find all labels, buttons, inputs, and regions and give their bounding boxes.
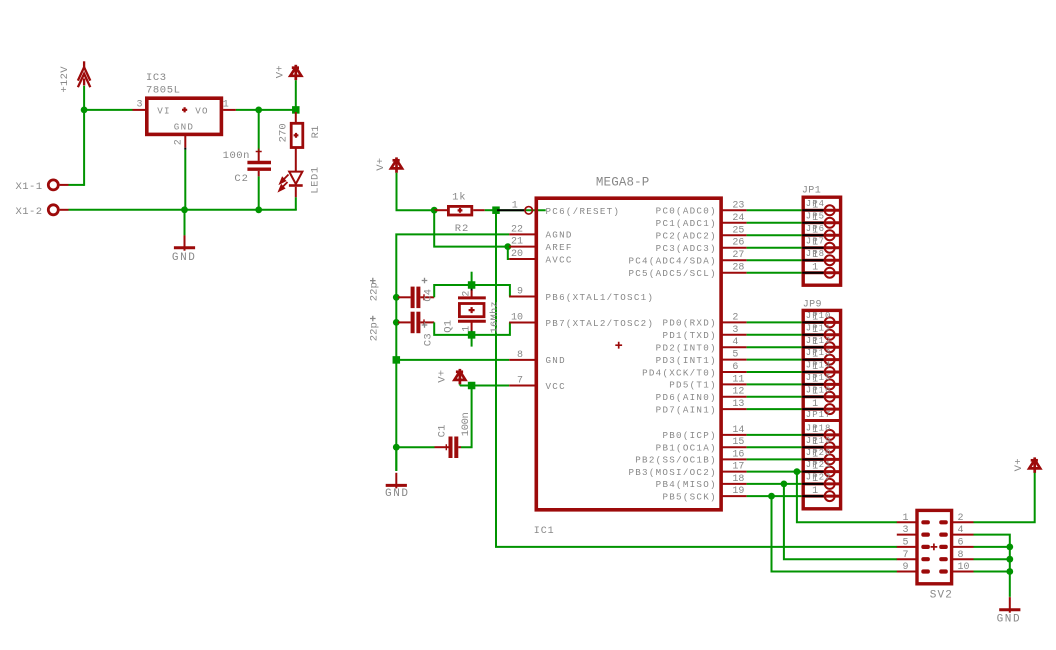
cross of C4 label [422,278,428,284]
svg-text:JP20: JP20 [806,448,832,458]
wire AREF to AVCC pin [508,247,509,259]
svg-text:PD3(INT1): PD3(INT1) [656,355,717,366]
wire pin 5 to header [747,359,824,361]
svg-text:270: 270 [277,123,289,142]
JP1 row at pin line y=260.2 [803,259,839,262]
svg-text:1: 1 [512,200,518,211]
wire C3 to crystal bottom node [434,322,471,335]
wire stub below crystal bottom node [471,339,473,347]
microcontroller IC1 MEGA8-P body [536,198,721,510]
cross of 22p C3 label [370,316,376,322]
JP9 row at pin line y=347.2 [803,346,839,349]
svg-text:10: 10 [511,313,523,324]
svg-text:PD0(RXD): PD0(RXD) [662,318,716,329]
JP1 row at pin line y=247.7 [803,246,839,249]
svg-text:1: 1 [461,326,472,332]
svg-text:7: 7 [517,376,523,387]
junction dot pin10 [1006,568,1013,575]
MCU pin 18 PB4(MISO) [721,483,747,485]
svg-text:X1-2: X1-2 [16,206,43,218]
svg-text:2: 2 [958,513,964,524]
wire pin 18 to header [747,483,824,485]
svg-text:JP18: JP18 [806,424,832,434]
wire AREF branch [434,210,508,246]
svg-text:PD1(TXD): PD1(TXD) [662,330,716,341]
svg-text:22p: 22p [368,282,380,301]
SV2 pins 7/8 [897,558,917,560]
wire C1 left to GND net [396,446,434,448]
svg-text:27: 27 [732,250,744,261]
svg-text:PB3(MOSI/OC2): PB3(MOSI/OC2) [628,467,716,478]
capacitor C3 [398,321,411,323]
MCU pin 21 AREF [509,246,536,248]
wire pin 2 to header [747,321,824,323]
svg-text:10: 10 [958,562,970,573]
power symbol +12V [78,61,90,87]
svg-text:1: 1 [812,425,818,436]
MCU pin 23 PC0(ADC0) [721,209,747,211]
junction dot C4 left [393,294,400,301]
svg-text:PC5(ADC5/SCL): PC5(ADC5/SCL) [628,268,716,279]
JP9 row at pin line y=434.9 [803,433,839,436]
wire pin 28 to header [747,272,824,274]
wire R2 to reset node [485,209,496,211]
JP9 row at pin line y=322.4 [803,321,839,324]
svg-text:PD2(INT0): PD2(INT0) [656,343,717,354]
svg-text:1: 1 [812,238,818,249]
svg-text:V+: V+ [274,65,286,78]
MCU pin 2 PD0(RXD) [721,321,747,323]
svg-text:PB6(XTAL1/TOSC1): PB6(XTAL1/TOSC1) [546,292,655,303]
MCU pin 8 GND [509,359,536,361]
MCU pin 20 AVCC [509,258,536,260]
wire R1 to LED1 [295,148,297,172]
wire AGND net [396,234,509,360]
svg-text:V+: V+ [437,370,449,383]
svg-text:+12V: +12V [59,66,71,93]
svg-text:21: 21 [511,237,523,248]
wire SV2 pin6 [974,546,1010,548]
wire 7805 GND down to ground rail [184,150,186,210]
connector SV2 outline [917,510,952,583]
JP9 row at pin line y=359.6 [803,358,839,361]
IC3 origin cross [182,107,187,112]
svg-text:1: 1 [812,263,818,274]
wire crystal bottom node to PB7 pin [472,323,510,335]
svg-text:PB5(SCK): PB5(SCK) [662,491,716,502]
svg-text:PB4(MISO): PB4(MISO) [656,479,717,490]
wire VCC branch down to C1 right [461,386,472,448]
svg-text:IC1: IC1 [534,526,555,537]
svg-text:17: 17 [732,462,744,473]
junction dot MOSI branch [794,468,801,475]
MCU pin 4 PD2(INT0) [721,346,747,348]
JP9 row at pin line y=409.1 [803,408,839,411]
capacitor C4 [398,296,411,298]
capacitor C2 plates [247,161,271,164]
svg-text:PB0(ICP): PB0(ICP) [662,430,716,441]
svg-text:JP11: JP11 [806,323,832,333]
R2 pin stubs [434,209,447,211]
junction square GND pin wire [393,356,401,364]
wire pin 19 to header [747,495,824,497]
svg-text:1: 1 [812,462,818,473]
svg-text:IC3: IC3 [146,72,167,84]
svg-text:GND: GND [172,252,197,264]
JP9 row at pin line y=496.1 [803,495,839,498]
junction dot pin8 [1006,556,1013,563]
svg-text:Q1: Q1 [443,320,455,333]
IC3 pin 3 stub [133,109,146,111]
svg-text:JP13: JP13 [806,348,832,358]
wire crystal top node to PB6 pin [472,285,510,297]
svg-text:3: 3 [902,525,908,536]
wire junction to 7805 VI [84,109,132,111]
capacitor C2 wire bottom [258,171,260,177]
svg-text:PD5(T1): PD5(T1) [669,380,717,391]
svg-text:22: 22 [511,224,523,235]
resistor R1 origin cross [294,133,299,138]
svg-text:12: 12 [732,387,744,398]
svg-text:JP16: JP16 [806,385,832,395]
svg-text:15: 15 [732,437,744,448]
resistor R2 origin cross [458,208,463,213]
junction dot C1 left [393,444,400,451]
svg-text:JP1: JP1 [802,186,821,197]
svg-text:7805L: 7805L [146,84,181,96]
junction dot MISO branch [781,481,788,488]
capacitor C2 origin cross [256,149,262,155]
svg-text:PC2(ADC2): PC2(ADC2) [656,231,717,242]
LED1 diode [289,172,303,198]
power symbol V+ middle [391,157,402,172]
junction dot at +12V / VI wire [81,107,88,114]
svg-text:1: 1 [812,213,818,224]
svg-text:3: 3 [136,99,142,110]
wire +12V stub down to X1-1 riser [83,86,85,186]
wire GND net to pin 8 [396,359,509,361]
svg-text:MEGA8-P: MEGA8-P [596,176,650,190]
wire SV2 pin8 [974,558,1010,560]
svg-text:PD7(AIN1): PD7(AIN1) [656,404,717,415]
wire MISO to SV2 pin7 [784,484,897,559]
MCU pin 1 inversion circle [525,207,533,215]
junction dot ground rail / C2 [255,206,262,213]
wire pin 12 to header [747,396,824,398]
wire pin 14 to header [747,434,824,436]
capacitor C3 origin cross [421,319,427,325]
svg-text:PC4(ADC4/SDA): PC4(ADC4/SDA) [628,256,716,267]
svg-text:JP17: JP17 [806,410,832,420]
svg-text:1: 1 [812,337,818,348]
junction square crystal bottom node [468,331,476,339]
MCU pin 15 PB1(OC1A) [721,446,747,448]
junction dot R2 left / AREF branch [431,207,438,214]
MCU pin 10 PB7(XTAL2/TOSC2) [509,322,536,324]
wire MOSI to SV2 pin1 [797,472,897,523]
svg-text:25: 25 [732,225,744,236]
svg-text:2: 2 [174,139,185,145]
svg-text:16Mhz: 16Mhz [489,301,501,333]
SV2 pins 9/10 [897,571,917,573]
svg-text:V+: V+ [1013,458,1025,471]
svg-text:C4: C4 [423,289,435,302]
wire V+ to VCC pin [459,384,461,385]
JP1 row at pin line y=222.8 [803,221,839,224]
power symbol V+ at VCC [454,369,465,384]
svg-text:5: 5 [732,350,738,361]
MCU pin 12 PD6(AIN0) [721,396,747,398]
svg-text:AGND: AGND [546,230,573,241]
svg-text:9: 9 [902,562,908,573]
svg-text:1: 1 [812,362,818,373]
svg-text:PD4(XCK/T0): PD4(XCK/T0) [642,367,717,378]
svg-text:1: 1 [812,399,818,410]
resistor R1 body [291,123,303,147]
wire X1-1 to riser [69,184,85,186]
wire pin 23 to header [747,209,824,211]
svg-text:18: 18 [732,474,744,485]
svg-text:5: 5 [902,538,908,549]
wire pin 6 to header [747,371,824,373]
svg-text:1k: 1k [452,192,466,204]
svg-text:JP22: JP22 [806,473,832,483]
svg-text:PC3(ADC3): PC3(ADC3) [656,243,717,254]
MCU pin 13 PD7(AIN1) [721,408,747,410]
svg-text:11: 11 [732,374,744,385]
capacitor C4 origin cross [421,294,427,300]
JP9 row at pin line y=471.6 [803,470,839,473]
svg-text:13: 13 [732,399,744,410]
svg-text:1: 1 [812,200,818,211]
wire pin 16 to header [747,458,824,460]
wire LED1 to ground rail [295,197,297,210]
JP9 divider of JP17 [803,419,839,422]
MCU pin 25 PC2(ADC2) [721,234,747,236]
wire SV2 pin2 to V+ [974,472,1035,522]
svg-text:LED1: LED1 [310,166,322,194]
wire pin 25 to header [747,234,824,236]
svg-text:PC0(ADC0): PC0(ADC0) [656,206,717,217]
wire C4 to crystal top node [434,285,471,297]
svg-text:C2: C2 [234,173,248,185]
svg-text:9: 9 [517,287,523,298]
svg-text:100n: 100n [460,412,472,436]
svg-text:1: 1 [812,312,818,323]
JP9 row at pin line y=396.7 [803,395,839,398]
svg-text:GND: GND [385,488,410,500]
svg-text:6: 6 [732,362,738,373]
connector pad X1-2 [48,205,58,215]
wire SV2 pin10 [974,571,1010,573]
MCU pin 28 PC5(ADC5/SCL) [721,272,747,274]
wire reset vertical down to SV2 pin5 [496,210,897,547]
svg-text:24: 24 [732,213,744,224]
svg-text:1: 1 [812,449,818,460]
SV2 pins 3/4 [897,534,917,536]
svg-text:C1: C1 [436,424,448,437]
svg-text:2: 2 [732,312,738,323]
svg-text:4: 4 [732,337,738,348]
ground symbol GND middle [386,473,407,489]
svg-text:JP21: JP21 [806,460,832,470]
svg-text:X1-1: X1-1 [16,181,43,193]
MCU pin 9 PB6(XTAL1/TOSC1) [509,296,536,298]
svg-text:14: 14 [732,425,744,436]
wire pin 17 to header [747,471,824,473]
junction dot AREF/AVCC [504,243,511,250]
svg-text:JP9: JP9 [803,300,822,311]
power symbol V+ right [1029,457,1040,472]
capacitor C1 origin cross [443,444,449,450]
MCU pin 27 PC4(ADC4/SDA) [721,259,747,261]
MCU pin 22 AGND [509,233,536,235]
JP9 row at pin line y=334.8 [803,333,839,336]
wire V+ stub to junction [295,80,297,110]
ground symbol GND right [999,597,1020,613]
svg-text:26: 26 [732,238,744,249]
wire pin 24 to header [747,222,824,224]
svg-text:7: 7 [902,550,908,561]
LED1 emission arrows [279,175,288,191]
svg-text:100n: 100n [223,150,250,162]
svg-text:PC1(ADC1): PC1(ADC1) [656,218,717,229]
resistor R2 body [448,206,471,215]
SV2 pins 5/6 [897,546,917,548]
MCU pin 11 PD5(T1) [721,383,747,385]
wire pin 4 to header [747,346,824,348]
svg-text:22p: 22p [368,322,380,341]
junction dot SCK branch [768,493,775,500]
svg-text:1: 1 [812,387,818,398]
svg-text:VO: VO [195,105,209,116]
svg-text:8: 8 [958,550,964,561]
svg-text:2: 2 [461,291,472,297]
MCU pin 19 PB5(SCK) [721,495,747,497]
wire R1 top [295,112,297,123]
JP1 row at pin line y=272.7 [803,271,839,274]
svg-text:1: 1 [812,474,818,485]
JP9 row at pin line y=384.4 [803,383,839,386]
svg-text:1: 1 [223,99,229,110]
svg-text:23: 23 [732,200,744,211]
svg-text:1: 1 [812,486,818,497]
crystal Q1 origin cross [469,307,475,313]
svg-text:GND: GND [546,355,566,366]
svg-text:6: 6 [958,538,964,549]
wire X1-2 ground rail [69,209,297,211]
junction dot C3 left [393,319,400,326]
wire reset node into PC6 pin [496,209,546,211]
MCU pin 3 PD1(TXD) [721,334,747,336]
svg-text:GND: GND [174,122,194,133]
svg-text:3: 3 [732,325,738,336]
junction square VO / R1 top [292,106,300,114]
junction square crystal top node [468,281,476,289]
wire pin 3 to header [747,334,824,336]
svg-text:JP15: JP15 [806,373,832,383]
JP9 row at pin line y=447.2 [803,446,839,449]
junction square reset node [492,206,500,214]
wire V+ down and to R2 [397,173,435,210]
svg-text:VI: VI [157,105,171,116]
svg-text:PB7(XTAL2/TOSC2): PB7(XTAL2/TOSC2) [546,318,655,329]
header JP9 outline [803,310,840,508]
svg-text:JP12: JP12 [806,336,832,346]
MCU origin cross [615,342,622,349]
crystal Q1 [458,290,486,331]
svg-text:JP19: JP19 [806,436,832,446]
svg-text:AVCC: AVCC [546,254,573,265]
svg-text:R1: R1 [310,125,322,138]
svg-text:JP10: JP10 [806,311,832,321]
cross of C3 label [422,322,428,328]
svg-text:4: 4 [958,525,964,536]
svg-text:1: 1 [902,513,908,524]
svg-text:1: 1 [812,437,818,448]
wire SV2 pin4 vertical [974,535,1010,597]
svg-text:JP14: JP14 [806,361,832,371]
IC3 pin 2 stub [184,134,186,147]
svg-text:PB1(OC1A): PB1(OC1A) [656,443,717,454]
power symbol V+ above R1 [290,65,301,80]
crystal pin black overlaps [471,288,473,291]
MCU pin 5 PD3(INT1) [721,359,747,361]
MCU pin 14 PB0(ICP) [721,434,747,436]
junction dot ground rail / 7805 GND [181,206,188,213]
JP9 row at pin line y=483.9 [803,482,839,485]
svg-text:VCC: VCC [546,381,566,392]
svg-text:PC6(/RESET): PC6(/RESET) [546,206,621,217]
svg-text:16: 16 [732,449,744,460]
header JP1 outline [803,197,840,285]
MCU pin 7 VCC [509,385,536,387]
wire pin 13 to header [747,408,824,410]
wire pin 11 to header [747,383,824,385]
wire 7805 VO to V+ rail [236,109,297,111]
connector SV2 origin cross [931,544,938,551]
svg-text:GND: GND [997,614,1022,626]
SV2 pins 1/2 [897,521,917,523]
svg-text:1: 1 [812,225,818,236]
capacitor C2 wire top [258,110,260,152]
MCU pin 16 PB2(SS/OC1B) [721,458,747,460]
MCU pin 26 PC3(ADC3) [721,247,747,249]
svg-text:1: 1 [812,374,818,385]
cross of 22p C4 label [370,278,376,284]
IC3 pin 1 stub [223,109,236,111]
svg-text:AREF: AREF [546,242,573,253]
svg-text:C3: C3 [423,333,435,346]
MCU pin 17 PB3(MOSI/OC2) [721,471,747,473]
connector pad X1-1 [48,180,58,190]
wire GND net down to C1 [395,360,397,471]
svg-text:1: 1 [812,250,818,261]
svg-text:1: 1 [812,350,818,361]
wire pin 27 to header [747,259,824,261]
JP1 row at pin line y=235.3 [803,234,839,237]
MCU pin 6 PD4(XCK/T0) [721,371,747,373]
wire pin 26 to header [747,247,824,249]
ground symbol GND left [174,235,195,251]
MCU pin 24 PC1(ADC1) [721,222,747,224]
junction dot VO / C2 top [255,107,262,114]
junction dot pin6 [1006,544,1013,551]
voltage regulator IC3 7805L body [147,98,222,134]
JP9 row at pin line y=372.0 [803,371,839,374]
capacitor C1 [435,446,449,448]
svg-text:1: 1 [812,325,818,336]
